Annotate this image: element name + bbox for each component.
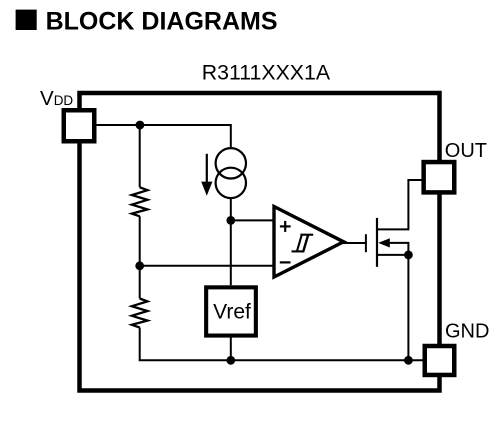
svg-text:OUT: OUT xyxy=(445,140,487,162)
svg-text:BLOCK DIAGRAMS: BLOCK DIAGRAMS xyxy=(46,8,278,36)
svg-text:GND: GND xyxy=(445,321,489,343)
svg-text:Vref: Vref xyxy=(213,301,251,324)
svg-text:R3111XXX1A: R3111XXX1A xyxy=(202,61,331,85)
